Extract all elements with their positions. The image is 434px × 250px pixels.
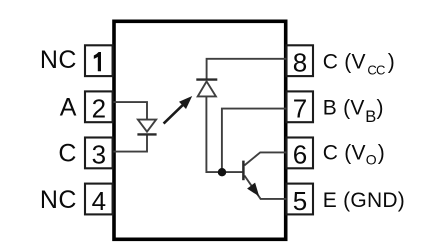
junction dot (base node) [218, 168, 226, 176]
svg-text:NC: NC [40, 46, 77, 74]
pin 8 box [287, 45, 314, 76]
svg-text:B (VB): B (VB) [323, 97, 384, 126]
pin 2 box [85, 91, 113, 122]
svg-text:C: C [58, 140, 76, 168]
pin 3 box [85, 138, 113, 169]
svg-text:C (VCC): C (VCC) [323, 50, 395, 77]
wire LED cathode to pin3 [114, 134, 148, 151]
pin 5 box [287, 184, 314, 215]
package outline U1 (8-pin DIP body) [114, 21, 286, 239]
transistor Q1 emitter arrowhead [247, 183, 259, 197]
wire photodiode cathode up to pin8 [207, 59, 287, 79]
photodiode D2 cathode bar [196, 78, 217, 80]
svg-text:3: 3 [92, 140, 106, 170]
wire pin2 to LED anode [114, 102, 148, 120]
wire emitter to pin5 [244, 176, 286, 199]
svg-text:6: 6 [293, 140, 307, 170]
pin 1 box [85, 45, 113, 76]
svg-text:4: 4 [92, 186, 106, 216]
photodiode D2 triangle (pointing up) [198, 81, 216, 96]
svg-text:7: 7 [293, 94, 307, 124]
svg-text:8: 8 [293, 47, 307, 77]
wire pin7 to base node [222, 109, 287, 173]
light coupling arrow shaft [164, 104, 185, 124]
svg-text:NC: NC [40, 186, 77, 214]
wire collector to pin6 [244, 152, 286, 165]
svg-text:E (GND): E (GND) [323, 189, 405, 212]
LED D1 cathode bar [137, 133, 156, 135]
svg-text:5: 5 [293, 186, 307, 216]
svg-text:2: 2 [92, 94, 106, 124]
pin 4 box [85, 184, 113, 215]
wire photodiode anode down to base node [206, 96, 243, 172]
transistor Q1 base bar [242, 161, 245, 181]
pin 6 box [287, 138, 314, 169]
pin 7 box [287, 91, 314, 122]
pin 1 number [94, 52, 101, 71]
LED D1 triangle (emitter diode, anode up) [138, 120, 156, 132]
svg-text:A: A [60, 94, 77, 122]
svg-text:C (VO): C (VO) [323, 142, 385, 168]
light coupling arrowhead [179, 96, 192, 109]
